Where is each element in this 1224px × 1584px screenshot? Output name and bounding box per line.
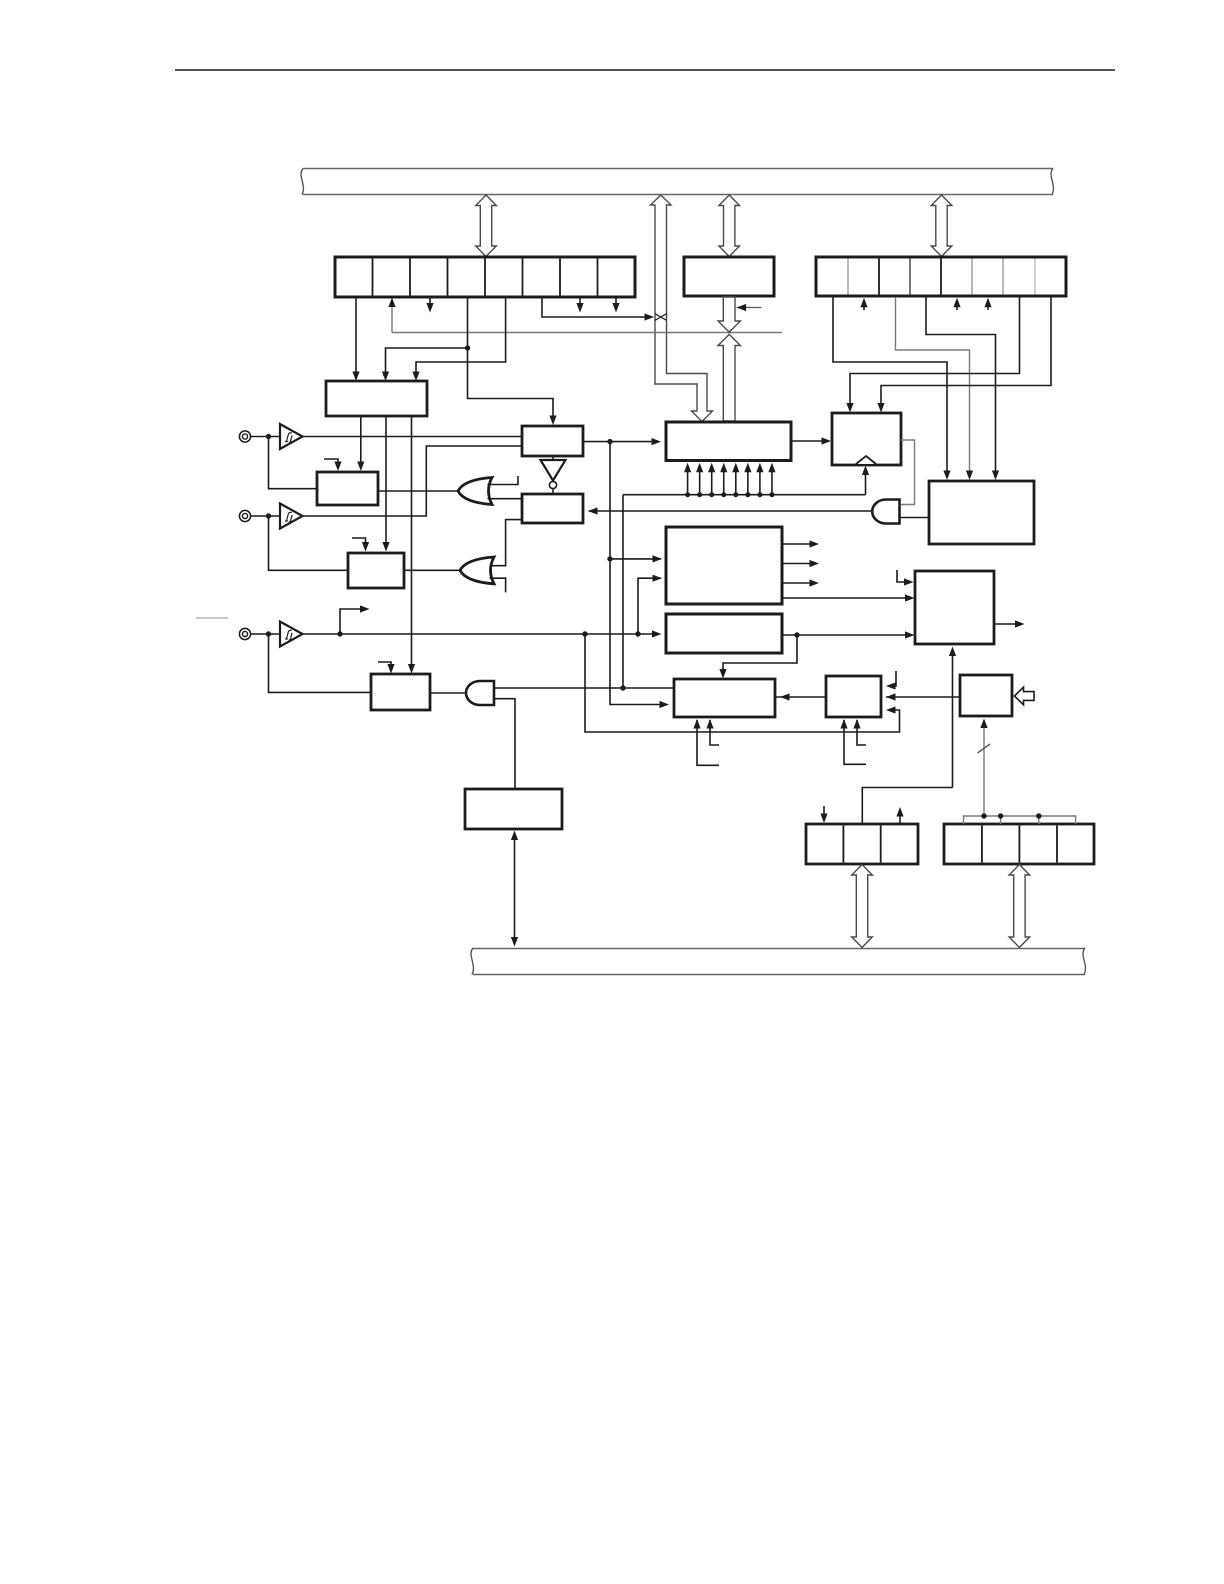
wire counter to overflow flag box	[791, 440, 827, 442]
clear stub of edge-detect box 2	[352, 538, 366, 542]
register CR01 box	[684, 257, 774, 296]
TOC register (3 cells)	[806, 824, 918, 864]
TO0 pin block arrow	[1015, 687, 1035, 705]
match/interrupt block	[929, 481, 1034, 544]
edge-detect box 1	[317, 472, 378, 505]
junction dot TI0	[266, 631, 271, 636]
OR1 lower input wire to capture control	[488, 498, 523, 500]
wire clock to CR00 block	[610, 558, 661, 560]
capture line arrow up into CRC0	[391, 303, 393, 333]
schmitt buffer TI01	[280, 504, 303, 529]
bus arrow TOC register	[852, 865, 873, 948]
bus arrow to capture/compare control register	[476, 195, 497, 257]
output latch block	[826, 676, 881, 717]
wire box3 to AND gate 2	[430, 692, 466, 694]
input pad TI0	[239, 628, 250, 639]
wire CR01 block to output control	[782, 634, 910, 636]
junction dot on counter clock wire	[607, 439, 612, 444]
input pad TI01	[239, 510, 250, 521]
branch TI01 down to edge-detect box 2	[269, 516, 349, 570]
stub arrow out of TOC cell3	[899, 812, 901, 824]
clear stub of output control block	[897, 570, 905, 582]
noise eliminator / valid edge selector	[522, 426, 583, 456]
wire box2 to OR gate 2	[404, 569, 460, 571]
input pad TI00	[239, 431, 250, 442]
compare block CR01	[666, 614, 782, 653]
register CRC0 (8-bit cells)	[335, 257, 635, 297]
branch TI0 to edge selector box3	[269, 634, 372, 692]
page header rule	[175, 69, 1115, 71]
branch TI00 down to edge-detect box	[269, 437, 318, 489]
selector output wire 1	[360, 416, 362, 462]
stub arrow TMC0 bit5	[987, 303, 989, 310]
latch stub 2	[857, 720, 866, 745]
gray gang line above mode register	[964, 816, 1076, 824]
hollow arrow up from counter to capture line	[718, 334, 740, 421]
latch stub 1	[844, 720, 866, 764]
hollow arrow CR01 down to capture line	[718, 297, 740, 332]
AND2 lower input to selector register	[494, 699, 515, 789]
OR gate 2	[460, 557, 494, 584]
wire pad TI0 to buffer	[251, 633, 281, 635]
wire CRC0 bit0 to selector	[355, 297, 357, 367]
bus arrow mode register	[1009, 865, 1030, 948]
junction dot TI0 up branch	[635, 631, 640, 636]
latch clear stub	[890, 671, 896, 686]
bus arrow to compare register CR01	[719, 195, 740, 257]
wire pad TI00 to buffer	[251, 436, 281, 438]
wire inverter to capture control	[552, 489, 554, 494]
16-bit timer counter TM0	[666, 422, 791, 461]
internal bus (top)	[301, 169, 1053, 195]
OR gate 1	[458, 478, 492, 505]
wire CRC0 bit5 to counter-read tap	[542, 297, 646, 317]
CR00 output stub 1	[782, 543, 811, 545]
CR00 output stub 3	[782, 582, 811, 584]
TI0 branch to output controller 2 (long path)	[585, 634, 900, 732]
stub arrow TMC0 bit4	[956, 303, 958, 310]
stub arrow into TOC cell1	[823, 806, 825, 815]
output controller stub 2	[710, 720, 719, 745]
bus arrow to mode register	[931, 195, 952, 257]
wire TMC0 bit3 to match block	[926, 297, 996, 471]
TI0 branch up into CR00 compare block	[638, 578, 661, 634]
output control result stub	[994, 623, 1016, 625]
output controller stub 1	[697, 720, 719, 765]
junction dot on AND2 line	[620, 685, 625, 690]
junction dot TI00	[266, 434, 271, 439]
gang line dot 2	[998, 813, 1003, 818]
output control block	[915, 571, 994, 644]
count pulse taps into counter	[684, 463, 776, 498]
wire selector to inverter	[552, 456, 554, 460]
prescaler/edge selector box	[326, 381, 427, 416]
wire TMC0 bit6 to flag box	[850, 297, 1020, 404]
wire TMC0 bit2 to match block (gray)	[896, 297, 970, 471]
clear stub of edge-detect box 1	[324, 459, 338, 462]
edge selector box3	[371, 674, 430, 710]
edge-detect box 2	[348, 553, 404, 588]
wire TI00 to noise eliminator	[303, 436, 523, 438]
count line up into overflow flag box	[865, 469, 867, 495]
wire CRC0 bit3 via T-junction	[468, 297, 554, 416]
mode select gray line to TO0 box	[983, 720, 985, 816]
junction dot CRC0 bit3	[465, 345, 470, 350]
wire CR00 to output control	[782, 597, 910, 599]
mode register (4 cells)	[944, 824, 1094, 864]
wire from toggle path into output control	[952, 649, 954, 788]
bus-width slash	[978, 744, 991, 753]
capture signal line (horizontal)	[392, 332, 782, 334]
clear stub of edge selector box3	[378, 662, 391, 665]
wire CRC0 bit4 to selector input 3	[416, 297, 506, 367]
interrupt enable line from AND gate 1	[589, 510, 873, 512]
count pulse line	[623, 494, 866, 496]
small arrow into CR01 write shaft	[737, 307, 762, 309]
wire box1 to OR gate 1	[378, 490, 458, 492]
schmitt buffer TI00	[280, 424, 303, 449]
prescaler selector register	[465, 789, 562, 829]
wire TMC0 bit7 to flag box	[881, 297, 1051, 404]
stub arrow TMC0 bit1	[863, 303, 865, 310]
wire TI01 riser to noise eliminator	[303, 446, 523, 516]
OR2 lower input stub	[490, 578, 506, 592]
internal bus (bottom)	[471, 948, 1085, 975]
bus link arrow of selector register	[514, 833, 516, 943]
OR2 upper input riser	[490, 520, 523, 566]
selector output wire 2	[385, 416, 387, 542]
stub arrow CRC0 bit2	[429, 297, 431, 303]
overflow flag box OVF0	[832, 413, 901, 465]
wire toggle path from TOC register	[862, 788, 952, 825]
edge caret of flag box	[856, 456, 876, 464]
AND gate 2	[466, 681, 494, 705]
crossing mark on read-bus shaft	[655, 314, 667, 321]
wire TI0 main line	[303, 633, 658, 635]
branch CR01 output to output controller	[723, 635, 797, 674]
count vertical from TI0 gate	[622, 495, 624, 688]
gang line dot 3	[1036, 813, 1041, 818]
AND1 lower input from match block	[900, 517, 930, 519]
bus arrow bent to 16-bit counter (read path)	[651, 195, 713, 422]
inverter	[541, 460, 566, 481]
junction dot CR01 output	[794, 632, 799, 637]
stub arrow CRC0 bit7	[615, 297, 617, 303]
junction dot TI01	[266, 513, 271, 518]
clock distribution vertical	[610, 442, 665, 705]
stub arrow from TI0 line	[340, 609, 361, 634]
schmitt buffer TI0	[280, 622, 303, 647]
gang line dot 1	[981, 813, 986, 818]
remark dash	[196, 617, 228, 619]
wire pad TI01 to buffer	[251, 515, 281, 517]
branch to selector input 2	[386, 348, 468, 367]
CR00 output stub 2	[782, 563, 811, 565]
register TMC0 (8-bit cells)	[816, 257, 1066, 296]
junction dot clock to CR00 block	[607, 556, 612, 561]
OR1 upper input stub	[488, 476, 519, 485]
junction dot TI0 lower branch	[582, 631, 587, 636]
selector output wire 3 (long)	[411, 416, 413, 664]
AND gate 1	[872, 500, 899, 524]
junction dot TI0 stub branch	[337, 631, 342, 636]
inverter bubble	[549, 481, 556, 488]
wire output controller 2 to 1	[775, 696, 826, 698]
compare register CR00 block	[666, 527, 782, 604]
wire TMC0 bit0 to match block	[833, 297, 947, 471]
wire selector to counter	[583, 441, 657, 443]
capture control box	[522, 494, 583, 523]
stub arrow CRC0 bit6	[579, 297, 581, 303]
wire TO0 box to latch	[886, 696, 960, 698]
output controller	[674, 679, 775, 717]
flag output wire to AND gate 1	[901, 440, 915, 505]
AND2 upper input line to output controller	[494, 687, 674, 689]
TO0 output box	[960, 675, 1012, 716]
